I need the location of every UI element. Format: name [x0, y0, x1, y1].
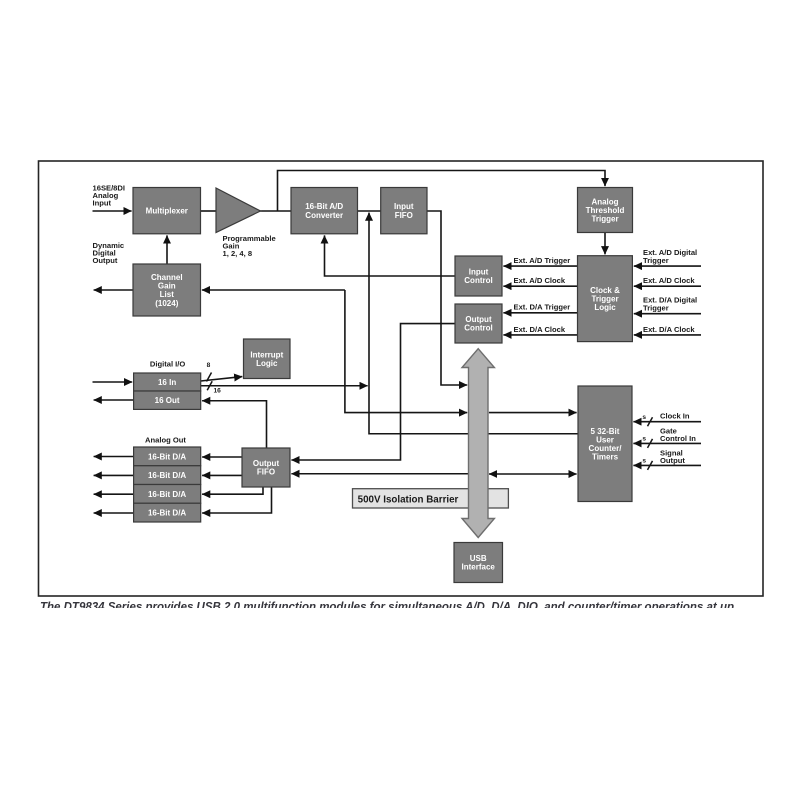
svg-text:Input: Input [93, 198, 112, 207]
svg-text:s: s [642, 436, 646, 443]
svg-text:Logic: Logic [594, 303, 616, 312]
svg-text:16 In: 16 In [158, 378, 176, 387]
svg-text:Timers: Timers [592, 453, 619, 462]
svg-text:The DT9834 Series provides USB: The DT9834 Series provides USB 2.0 multi… [40, 602, 734, 614]
svg-text:Multiplexer: Multiplexer [146, 207, 188, 216]
svg-text:Analog Out: Analog Out [145, 436, 186, 445]
svg-text:Ext. D/A Trigger: Ext. D/A Trigger [514, 303, 571, 312]
svg-text:16: 16 [214, 388, 222, 395]
svg-text:Gain: Gain [158, 282, 176, 291]
svg-text:List: List [160, 290, 175, 299]
svg-text:1, 2, 4, 8: 1, 2, 4, 8 [223, 249, 253, 258]
svg-text:Digital I/O: Digital I/O [150, 360, 186, 369]
svg-text:Ext. A/D Trigger: Ext. A/D Trigger [514, 256, 571, 265]
svg-text:8: 8 [207, 362, 211, 369]
svg-text:Channel: Channel [151, 273, 183, 282]
svg-text:16-Bit D/A: 16-Bit D/A [148, 452, 186, 461]
svg-text:16-Bit D/A: 16-Bit D/A [148, 509, 186, 518]
svg-text:Ext. D/A Clock: Ext. D/A Clock [643, 325, 695, 334]
svg-text:Trigger: Trigger [643, 256, 669, 265]
svg-text:500V Isolation Barrier: 500V Isolation Barrier [358, 495, 459, 506]
svg-text:16-Bit D/A: 16-Bit D/A [148, 471, 186, 480]
svg-text:16-Bit D/A: 16-Bit D/A [148, 490, 186, 499]
svg-text:Input: Input [394, 202, 414, 211]
svg-text:Output: Output [93, 256, 118, 265]
svg-text:s: s [642, 414, 646, 421]
svg-text:16 Out: 16 Out [155, 396, 180, 405]
svg-text:FIFO: FIFO [257, 468, 275, 477]
svg-text:Ext. D/A Clock: Ext. D/A Clock [514, 325, 566, 334]
svg-text:Ext. A/D Clock: Ext. A/D Clock [643, 276, 695, 285]
svg-text:16-Bit A/D: 16-Bit A/D [305, 202, 343, 211]
svg-text:Control: Control [464, 276, 492, 285]
svg-text:(1024): (1024) [155, 299, 178, 308]
svg-text:Trigger: Trigger [591, 215, 618, 224]
svg-text:Control In: Control In [660, 434, 696, 443]
svg-text:Clock In: Clock In [660, 412, 690, 421]
svg-text:Output: Output [660, 456, 685, 465]
svg-text:FIFO: FIFO [395, 211, 413, 220]
svg-text:Converter: Converter [305, 211, 343, 220]
svg-text:Control: Control [464, 324, 492, 333]
svg-text:s: s [642, 458, 646, 465]
svg-text:Ext. A/D Clock: Ext. A/D Clock [514, 276, 566, 285]
svg-text:Logic: Logic [256, 359, 278, 368]
svg-text:Trigger: Trigger [643, 304, 669, 313]
svg-text:Interface: Interface [462, 563, 496, 572]
